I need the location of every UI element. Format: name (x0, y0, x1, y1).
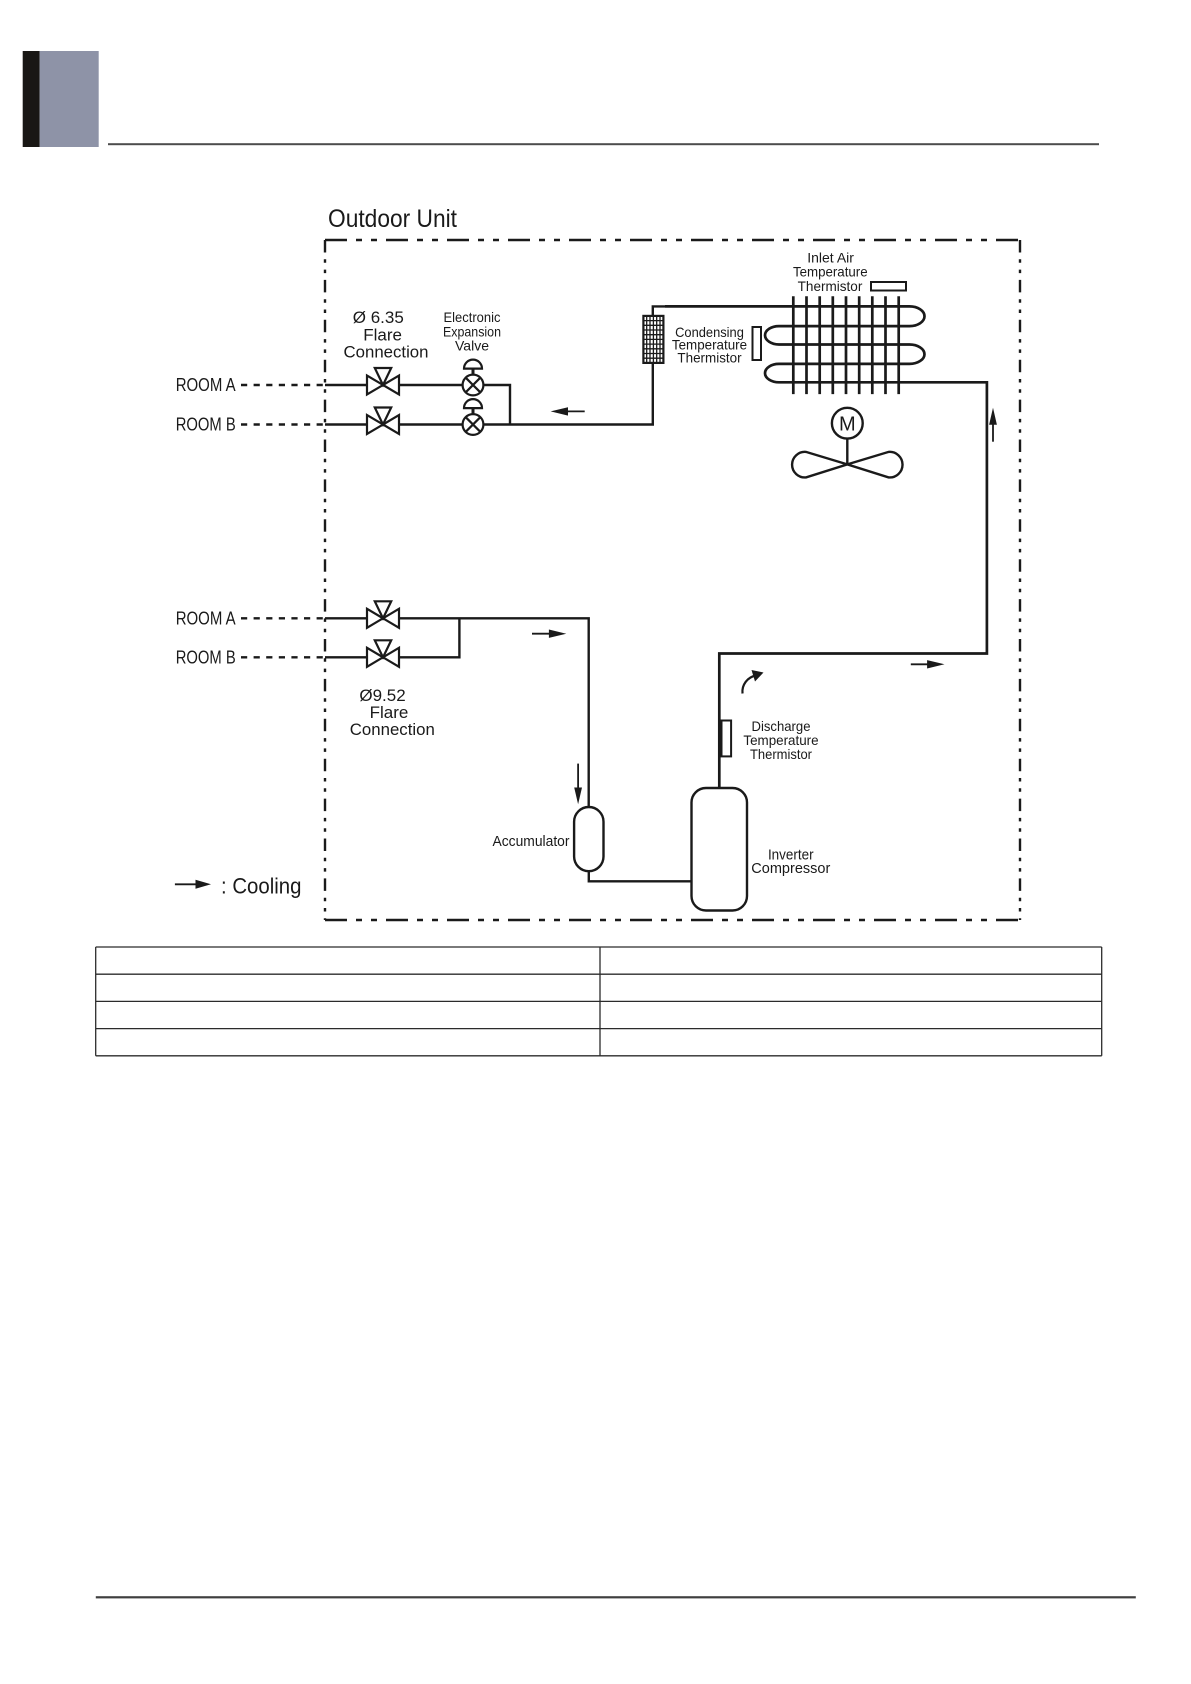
outdoor unit dash-dot border vertical edges (325, 240, 1020, 920)
svg-text:ROOM B: ROOM B (176, 415, 236, 435)
pipe ROOM B lower to valve (325, 656, 367, 658)
header gray tab (40, 51, 99, 147)
pipe gas line valve A to downcomer (399, 618, 589, 806)
flow arrow left (liquid line) (566, 410, 585, 412)
flow arrow right (discharge) (911, 663, 929, 665)
pipe ROOM A upper to valve (325, 384, 367, 386)
svg-text:Compressor: Compressor (751, 861, 830, 877)
fan shaft (846, 439, 848, 465)
service valve V4 (gas room B) (367, 640, 399, 667)
ROOM A lower dashed leader (241, 617, 325, 619)
strainer hatched body (643, 316, 663, 363)
svg-text:ROOM A: ROOM A (176, 375, 236, 395)
svg-text:M: M (839, 414, 856, 436)
svg-text:: Cooling: : Cooling (221, 873, 302, 898)
pipe ROOM A lower to valve (325, 617, 367, 619)
svg-text:Connection: Connection (350, 720, 435, 739)
svg-text:Ø 6.35: Ø 6.35 (353, 308, 404, 327)
condenser fins (793, 296, 898, 394)
svg-text:Valve: Valve (455, 338, 489, 354)
pipe valve A to expansion valve A (399, 384, 463, 386)
pipe ROOM B upper to valve (325, 423, 367, 425)
svg-text:Thermistor: Thermistor (798, 278, 863, 294)
pipe EEV A output elbow down to room B line (484, 385, 511, 425)
pipe valve B to expansion valve B (399, 423, 463, 425)
svg-text:Thermistor: Thermistor (677, 349, 742, 365)
inverter compressor (692, 788, 748, 911)
discharge temperature thermistor sensor (722, 721, 732, 757)
ROOM B lower dashed leader (241, 656, 325, 658)
svg-text:Accumulator: Accumulator (493, 834, 570, 850)
service valve V1 (liquid room A) (367, 368, 399, 395)
svg-text:Outdoor Unit: Outdoor Unit (328, 205, 457, 233)
header black tab (23, 51, 40, 147)
inlet air temperature thermistor sensor (871, 282, 906, 291)
pipe valve B lower junction riser (399, 618, 459, 657)
flow arrow down (suction) (577, 764, 579, 789)
pipe strainer to condenser coil row1 (653, 306, 665, 316)
electronic expansion valve EEV2 (463, 399, 484, 435)
flow arrow right (gas line lower) (532, 633, 550, 635)
svg-text:ROOM A: ROOM A (176, 608, 236, 628)
service valve V2 (liquid room B) (367, 408, 399, 435)
ROOM A upper dashed leader (241, 384, 325, 386)
electronic expansion valve EEV1 (463, 360, 484, 396)
service valve V3 (gas room A) (367, 601, 399, 628)
fan propeller (792, 452, 902, 478)
legend cooling arrow (175, 883, 198, 885)
ROOM B upper dashed leader (241, 423, 325, 425)
compressor discharge curved arrow (742, 676, 756, 694)
svg-text:Connection: Connection (344, 343, 429, 362)
condenser coil serpentine pipe (665, 306, 987, 788)
spec table (96, 947, 1102, 1056)
condensing temperature thermistor sensor (753, 327, 762, 360)
footer rule (96, 1596, 1136, 1598)
outdoor unit dash-dot border horizontal edges (325, 240, 1020, 920)
header rule (108, 143, 1099, 145)
flow arrow up (riser) (992, 424, 994, 442)
svg-text:ROOM B: ROOM B (176, 647, 236, 667)
pipe accumulator to compressor (589, 871, 692, 881)
svg-text:Thermistor: Thermistor (750, 746, 812, 762)
pipe liquid line to strainer (484, 363, 653, 425)
accumulator (574, 807, 603, 871)
fan motor M (832, 408, 863, 439)
